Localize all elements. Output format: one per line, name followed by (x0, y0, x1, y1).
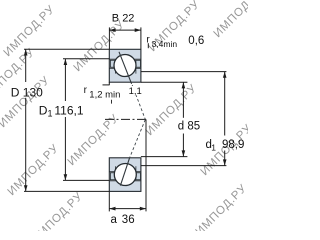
a extension line right (from contact point on axis) (145, 119, 147, 211)
inner ring shoulder edges (bottom section) (114, 166, 116, 172)
inner ring shoulder edges (top section) (114, 68, 116, 73)
inner ring (top section) (109, 68, 141, 82)
svg-text:D 130: D 130 (11, 85, 43, 99)
ball (bottom section) (114, 164, 136, 186)
svg-text:116,1: 116,1 (54, 103, 83, 117)
svg-text:D: D (39, 103, 48, 117)
svg-text:B 22: B 22 (112, 13, 135, 25)
svg-text:3,4min: 3,4min (152, 39, 178, 49)
bottom section outline (109, 158, 141, 192)
svg-text:a: a (111, 214, 118, 226)
axis centerline (dash-dot) (105, 118, 147, 120)
top section outline (109, 49, 141, 82)
r1,2min corner ticks (108, 82, 110, 85)
D1 dimension line (64, 59, 66, 101)
svg-text:1: 1 (48, 109, 53, 119)
d1 level line top (141, 71, 227, 73)
D dimension line (25, 49, 27, 82)
outer ring (bottom section) (109, 181, 141, 192)
contact angle line (top, solid) (119, 52, 132, 84)
cage (bottom section) (110, 173, 115, 180)
inner ring (bottom section) (109, 158, 141, 172)
svg-text:1,2 min: 1,2 min (89, 90, 120, 101)
D1 level line bottom (63, 179, 109, 181)
outer ring (top section) (109, 49, 141, 59)
svg-text:98,9: 98,9 (222, 139, 244, 151)
d1 level line bottom (141, 165, 227, 167)
contact angle line (bottom, dashed continuation) (130, 120, 146, 158)
a extension line left (face extended) (108, 191, 110, 211)
D level line bottom (24, 190, 109, 192)
B extension line left (108, 27, 110, 49)
a dimension line (109, 208, 146, 210)
B extension line right (140, 27, 142, 49)
d level line bottom (merges with bottom section top edge) (141, 156, 188, 158)
D level line top (merges with section top edge) (24, 48, 109, 50)
d1 dimension line (224, 72, 226, 136)
D1 level line top (63, 58, 109, 60)
d dimension line (182, 82, 184, 118)
contact angle line (top, dashed continuation) (132, 85, 145, 119)
d level line top (merges with top section bottom edge) (141, 81, 188, 83)
B dimension line (109, 29, 140, 31)
svg-text:1: 1 (211, 142, 216, 152)
ball (top section) (114, 55, 136, 77)
svg-text:d 85: d 85 (178, 121, 200, 133)
contact angle line (bottom, solid) (120, 158, 129, 186)
label 1,1 (value) with white backing (128, 86, 140, 95)
svg-text:1,1: 1,1 (129, 86, 142, 97)
svg-text:0,6: 0,6 (188, 35, 204, 47)
cage (top section) (110, 60, 115, 67)
r3,4min 0,6 leader tick (147, 43, 149, 48)
svg-text:36: 36 (122, 214, 135, 226)
